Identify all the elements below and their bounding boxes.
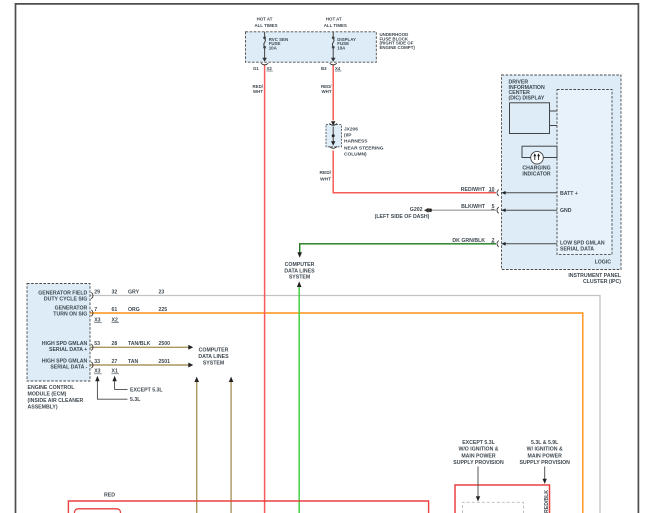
- svg-text:RED/: RED/: [320, 170, 332, 176]
- svg-text:SERIAL DATA +: SERIAL DATA +: [49, 347, 87, 353]
- svg-text:ENGINE CONTROL: ENGINE CONTROL: [28, 385, 76, 391]
- svg-text:EXCEPT 5.3L: EXCEPT 5.3L: [130, 387, 163, 393]
- svg-text:23: 23: [159, 289, 165, 295]
- svg-text:RED/WHT: RED/WHT: [461, 187, 486, 193]
- svg-text:SERIAL DATA -: SERIAL DATA -: [50, 364, 87, 370]
- svg-text:MAIN POWER: MAIN POWER: [528, 453, 563, 459]
- svg-text:X2: X2: [267, 66, 273, 71]
- svg-text:HOT AT: HOT AT: [257, 17, 273, 22]
- svg-text:SUPPLY PROVISION: SUPPLY PROVISION: [519, 460, 570, 466]
- svg-text:RED/BLK: RED/BLK: [544, 490, 550, 513]
- svg-text:27: 27: [112, 359, 118, 365]
- svg-text:5.3L & 5.9L: 5.3L & 5.9L: [531, 440, 559, 446]
- svg-text:SYSTEM: SYSTEM: [203, 360, 224, 366]
- svg-text:DATA LINES: DATA LINES: [198, 354, 229, 360]
- svg-text:2500: 2500: [159, 341, 171, 347]
- svg-text:29: 29: [94, 289, 100, 295]
- svg-text:10A: 10A: [337, 45, 346, 50]
- svg-text:7: 7: [94, 307, 97, 313]
- svg-text:2501: 2501: [159, 359, 171, 365]
- svg-text:5.3L: 5.3L: [130, 397, 141, 403]
- svg-text:ASSEMBLY): ASSEMBLY): [28, 405, 58, 411]
- svg-text:BLK/WHT: BLK/WHT: [461, 204, 486, 210]
- svg-text:INDICATOR: INDICATOR: [522, 172, 551, 178]
- svg-text:28: 28: [112, 341, 118, 347]
- svg-text:ALL TIMES: ALL TIMES: [254, 23, 277, 28]
- svg-text:MAIN POWER: MAIN POWER: [461, 453, 496, 459]
- svg-text:TAN: TAN: [128, 359, 139, 365]
- svg-text:32: 32: [112, 289, 118, 295]
- svg-text:CLUSTER (IPC): CLUSTER (IPC): [583, 279, 621, 285]
- svg-text:TAN/BLK: TAN/BLK: [128, 341, 151, 347]
- svg-text:W/O IGNITION &: W/O IGNITION &: [458, 447, 498, 453]
- svg-text:SYSTEM: SYSTEM: [289, 275, 310, 281]
- svg-text:ORG: ORG: [128, 307, 140, 313]
- svg-text:WHT: WHT: [253, 89, 263, 94]
- svg-text:G202: G202: [410, 207, 423, 213]
- svg-text:NEAR STEERING: NEAR STEERING: [344, 145, 384, 151]
- svg-text:INSTRUMENT PANEL: INSTRUMENT PANEL: [568, 273, 621, 279]
- svg-text:ALL TIMES: ALL TIMES: [324, 23, 347, 28]
- svg-text:TURN ON SIG: TURN ON SIG: [53, 312, 87, 318]
- svg-text:COMPUTER: COMPUTER: [199, 348, 229, 354]
- svg-text:COLUMN): COLUMN): [344, 152, 367, 158]
- svg-text:GND: GND: [560, 208, 572, 214]
- svg-text:10A: 10A: [269, 45, 278, 50]
- svg-text:WHT: WHT: [320, 176, 331, 182]
- svg-text:COMPUTER: COMPUTER: [285, 262, 315, 268]
- svg-text:SERIAL DATA: SERIAL DATA: [560, 247, 594, 253]
- svg-text:(LEFT SIDE OF DASH): (LEFT SIDE OF DASH): [375, 214, 430, 220]
- svg-text:33: 33: [94, 359, 100, 365]
- svg-text:SUPPLY PROVISION: SUPPLY PROVISION: [453, 460, 504, 466]
- svg-text:DUTY CYCLE SIG: DUTY CYCLE SIG: [44, 296, 87, 302]
- svg-text:JX206: JX206: [344, 126, 358, 132]
- svg-text:EXCEPT 5.3L: EXCEPT 5.3L: [462, 440, 495, 446]
- svg-text:225: 225: [159, 307, 168, 313]
- svg-text:CHARGING: CHARGING: [522, 165, 550, 171]
- svg-text:DATA LINES: DATA LINES: [284, 268, 315, 274]
- svg-text:LOGIC: LOGIC: [595, 259, 612, 265]
- svg-text:W/ IGNITION &: W/ IGNITION &: [527, 447, 563, 453]
- svg-text:RED: RED: [104, 492, 115, 498]
- svg-text:B3: B3: [321, 66, 327, 71]
- svg-text:G1: G1: [253, 66, 259, 71]
- svg-text:HOT AT: HOT AT: [326, 17, 342, 22]
- svg-text:53: 53: [94, 341, 100, 347]
- svg-text:61: 61: [112, 307, 118, 313]
- svg-text:X4: X4: [335, 66, 341, 71]
- svg-text:GRY: GRY: [128, 289, 140, 295]
- svg-text:(I/P: (I/P: [344, 133, 352, 139]
- svg-text:MODULE (ECM): MODULE (ECM): [28, 392, 67, 398]
- svg-text:WHT: WHT: [322, 89, 332, 94]
- svg-text:(INSIDE AIR CLEANER: (INSIDE AIR CLEANER: [28, 398, 84, 404]
- svg-text:HARNESS: HARNESS: [344, 139, 368, 145]
- svg-text:BATT +: BATT +: [560, 191, 578, 197]
- svg-text:(DIC) DISPLAY: (DIC) DISPLAY: [509, 96, 545, 102]
- svg-text:ENGINE COMPT): ENGINE COMPT): [380, 45, 416, 50]
- svg-text:DK GRN/BLK: DK GRN/BLK: [452, 238, 485, 244]
